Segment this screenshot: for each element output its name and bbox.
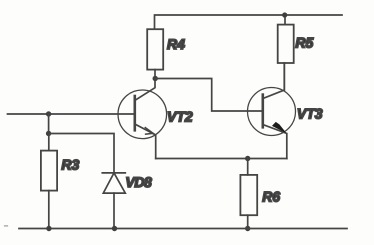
resistor R5 [278,25,294,63]
wire R5 top lead [284,15,286,25]
wire bottom rail [19,228,347,230]
svg-text:VT2: VT2 [167,108,193,124]
wire R5 bottom lead to VT3 collector [283,63,285,90]
wire VT2 base lead [8,113,135,115]
wire R6 bottom lead [247,215,249,228]
wire top rail [155,15,343,29]
wire from VT2 collector node to VT3 base [155,79,263,112]
resistor R6 [240,175,257,215]
node junction on base wire [46,111,51,116]
svg-text:R3: R3 [61,157,79,173]
transistor VT3 [248,63,296,159]
wire R3 bottom lead [48,191,50,229]
svg-text:VT3: VT3 [297,106,323,122]
node junction at VT2 collector [153,76,158,81]
svg-text:VD8: VD8 [125,174,152,190]
wire R3 top lead [48,134,50,151]
node junction top of R6 [245,156,250,161]
wire emitter rail [156,158,287,160]
node junction R3/VD8 [46,131,51,136]
node junction top of R5 [282,12,287,17]
wire R6 top lead [247,159,249,175]
node junction VD8 bottom [112,226,117,231]
svg-text:R5: R5 [295,34,313,50]
svg-text:R6: R6 [262,188,280,204]
node junction R6 bottom [245,226,250,231]
transistor VT2 [118,79,167,159]
svg-text:R4: R4 [167,36,185,52]
wire to VD8 top [49,134,114,173]
resistor R3 [41,151,57,191]
wire junction to R3/VD8 node [48,114,50,134]
wire R4 bottom lead [154,70,156,79]
node junction R3 bottom [46,226,51,231]
diode VD8 [102,173,125,229]
resistor R4 [147,29,163,69]
